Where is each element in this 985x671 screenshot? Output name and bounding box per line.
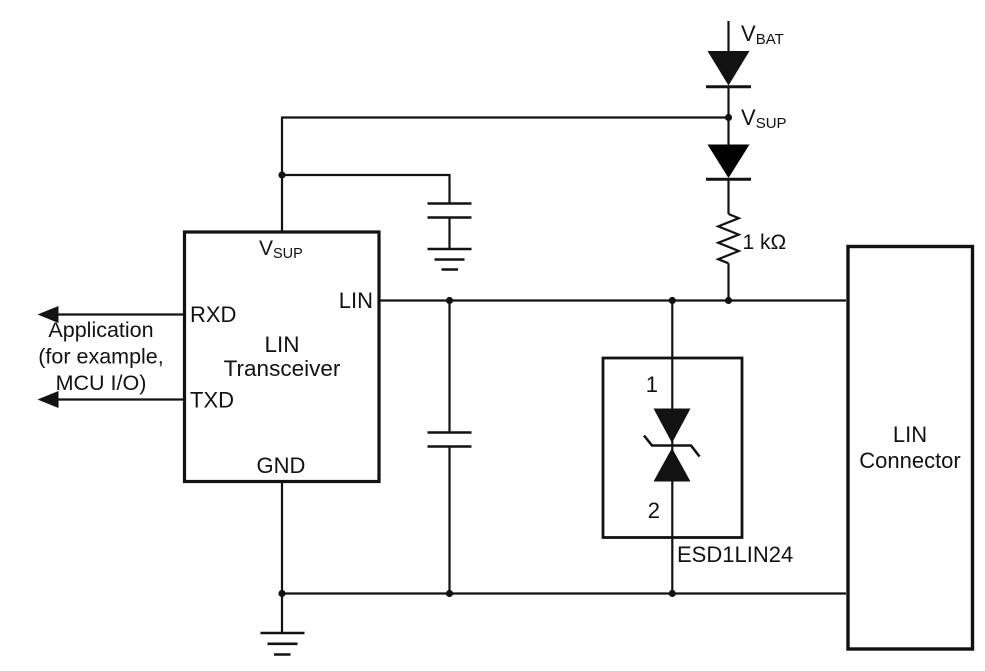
wire D1 cathode to VSUP node <box>727 87 729 145</box>
wire VBAT feed vertical <box>727 21 729 52</box>
svg-text:MCU I/O): MCU I/O) <box>56 371 147 395</box>
node junction dot (GND/C2) <box>446 590 453 597</box>
svg-text:ESD1LIN24: ESD1LIN24 <box>677 542 793 567</box>
label VBAT <box>741 21 784 48</box>
node junction dot (GND/ground symbol) <box>278 590 285 597</box>
node junction dot (LIN/R1) <box>725 297 732 304</box>
wire GND pin to ground rail <box>281 483 283 594</box>
TVS diode Z1 (bidirectional) <box>644 409 700 482</box>
svg-text:TXD: TXD <box>190 388 234 413</box>
label LIN Transceiver (box center) <box>224 332 341 381</box>
node junction dot (LIN/ESD) <box>669 297 676 304</box>
wire TXD <box>56 398 183 400</box>
svg-text:(for example,: (for example, <box>38 345 163 369</box>
diode D1 (reverse-battery diode, VBAT side) <box>706 51 751 87</box>
wire RXD <box>56 313 183 315</box>
wire C2 branch vertical upper <box>448 301 450 433</box>
svg-text:Transceiver: Transceiver <box>224 356 341 381</box>
wire branch to capacitor C1 <box>282 175 450 204</box>
svg-text:LIN: LIN <box>264 332 299 357</box>
ground symbol (under C1) <box>428 249 472 270</box>
svg-text:1 kΩ: 1 kΩ <box>743 231 787 254</box>
label R1 value 1 kOhm <box>743 231 787 254</box>
LIN transceiver box U1 <box>185 232 380 482</box>
wire resistor to LIN line <box>727 263 729 300</box>
LIN connector box J1 <box>848 247 973 650</box>
wire D2 cathode to resistor <box>727 179 729 214</box>
wire ground rail horizontal <box>282 592 846 594</box>
arrow RXD (to application) <box>38 306 59 323</box>
node junction dot (GND/ESD) <box>669 590 676 597</box>
wire VSUP rail horizontal <box>282 116 729 118</box>
svg-text:GND: GND <box>257 453 306 478</box>
svg-text:LIN: LIN <box>339 288 373 313</box>
node VSUP junction dot <box>725 114 732 121</box>
svg-text:Application: Application <box>48 318 153 342</box>
capacitor C1 <box>428 204 472 218</box>
label VSUP (node) <box>741 105 787 132</box>
node junction dot (LIN/C2) <box>446 297 453 304</box>
svg-text:2: 2 <box>648 498 660 523</box>
label Application (for example, MCU I/O) <box>38 318 163 395</box>
wire VSUP drop to transceiver pin <box>281 117 283 233</box>
wire ESD branch vertical <box>671 301 673 594</box>
svg-text:Connector: Connector <box>859 448 961 473</box>
svg-text:1: 1 <box>646 372 658 397</box>
resistor R1 1 kOhm <box>718 214 739 263</box>
ground symbol (main) <box>261 633 305 655</box>
ESD protection box U2 <box>603 358 742 538</box>
pin label VSUP (transceiver) <box>259 237 303 262</box>
diode D2 (VSUP to resistor) <box>706 145 751 180</box>
capacitor C2 <box>428 433 472 447</box>
label LIN Connector (box center) <box>859 422 961 473</box>
wire ground rail to ground symbol <box>281 594 283 634</box>
svg-text:RXD: RXD <box>190 302 236 327</box>
wire C1 to ground <box>448 218 450 250</box>
wire C2 branch vertical lower <box>448 447 450 594</box>
arrow TXD (to application) <box>38 391 59 408</box>
node junction dot (VSUP/C1 branch) <box>278 171 285 178</box>
svg-text:LIN: LIN <box>893 422 927 447</box>
wire LIN bus horizontal <box>380 299 846 301</box>
